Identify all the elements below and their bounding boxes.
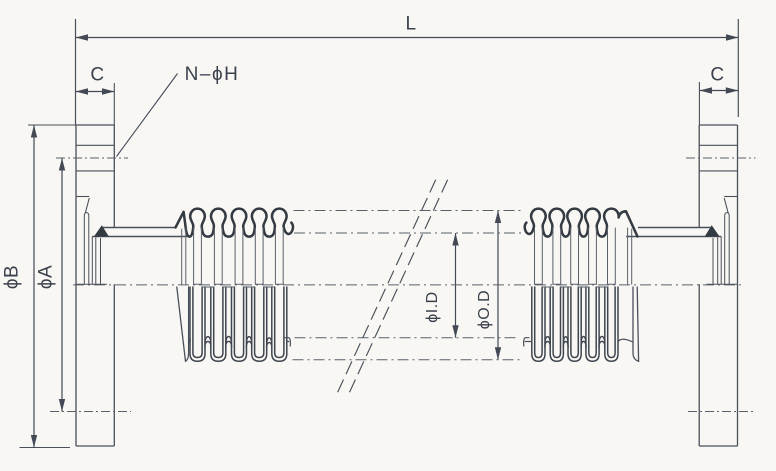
right bellows top convolution walls	[535, 228, 632, 284]
svg-text:L: L	[405, 14, 416, 35]
tick bottom phiB	[20, 447, 71, 449]
leader line from N-phiH to bolt circle	[117, 74, 178, 157]
dimension C left	[76, 91, 115, 93]
dimension L top	[76, 37, 739, 39]
phantom line bellows root top ID	[294, 232, 521, 234]
extension line left for L	[75, 19, 77, 125]
left hub centerline cap	[76, 283, 107, 285]
left sleeve top line	[92, 236, 187, 238]
left bellows top profile	[176, 209, 294, 237]
left flange bolt hole top lines	[76, 144, 114, 146]
extension line right for L and C	[737, 19, 739, 117]
svg-text:ϕI.D: ϕI.D	[424, 291, 441, 322]
svg-text:C: C	[90, 65, 104, 86]
phantom line bellows crest top	[294, 210, 522, 212]
right flange hub step	[724, 196, 737, 198]
left sleeve wall lines	[91, 237, 93, 285]
dimension phiOD outer diameter	[497, 211, 499, 360]
svg-text:ϕB: ϕB	[2, 265, 23, 289]
dimension phiB left outer	[33, 125, 35, 448]
svg-text:ϕA: ϕA	[36, 265, 57, 289]
right pipe top line	[638, 227, 712, 229]
right bellows bottom last root	[618, 339, 633, 342]
left flange hub step	[76, 196, 89, 198]
phantom line bellows root bottom ID	[295, 337, 520, 339]
tick top phiB	[28, 124, 76, 126]
left bellows bottom first root	[189, 339, 190, 342]
right weld fillet	[705, 225, 720, 236]
right sleeve top line	[626, 236, 721, 238]
right sleeve wall lines	[720, 237, 722, 285]
left bellows bottom roots	[205, 336, 272, 347]
centerline axis dash-dot	[73, 284, 742, 286]
right flange bolt circle dash-dot top	[686, 157, 756, 159]
break line diagonal 2	[349, 180, 448, 395]
left flange bolt circle dash-dot bottom	[50, 411, 131, 413]
phantom line bellows crest bottom OD	[293, 359, 522, 361]
right lap stub ring	[725, 213, 730, 285]
right bellows bottom roots	[545, 336, 605, 347]
right bellows top profile	[525, 209, 638, 237]
left bellows bottom top caps	[202, 286, 275, 288]
right flange plate outline	[737, 125, 739, 446]
dimension phiA bolt circle	[61, 158, 63, 412]
dimension C right	[700, 90, 739, 92]
right flange bolt circle dash-dot bottom	[688, 411, 755, 413]
right flange bolt hole top lines	[699, 144, 737, 146]
left bellows wall end caps	[194, 283, 284, 285]
svg-text:N–ϕH: N–ϕH	[185, 64, 240, 85]
left bellows bottom open-end hook	[285, 338, 290, 346]
extension line C right flange inner face	[698, 82, 700, 125]
right bellows wall end caps	[535, 283, 616, 285]
right hub centerline cap	[707, 283, 738, 285]
break line diagonal 1	[337, 180, 436, 395]
left bellows bottom end cut	[177, 287, 186, 361]
svg-text:C: C	[710, 65, 724, 86]
left lap stub ring	[84, 213, 89, 285]
left flange plate outline	[75, 125, 77, 446]
left bellows top convolution walls	[182, 228, 284, 284]
svg-text:ϕO.D: ϕO.D	[476, 290, 493, 329]
left pipe top line	[102, 227, 176, 229]
left flange bolt circle dash-dot top	[56, 157, 128, 159]
right bellows bottom convolutions	[532, 287, 618, 361]
right bellows bottom top caps	[542, 286, 608, 288]
right bellows bottom end cut	[637, 287, 638, 361]
left weld fillet	[94, 225, 109, 236]
extension line C left flange inner face	[113, 83, 115, 125]
dimension phiID inner diameter	[455, 233, 457, 338]
left bellows bottom convolutions	[190, 287, 287, 361]
right bellows bottom open-end hook	[524, 338, 532, 346]
